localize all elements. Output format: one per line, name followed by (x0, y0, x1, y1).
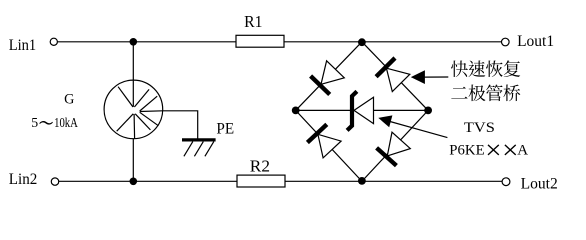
diode D1 (bridge upper-left) (311, 61, 345, 95)
resistor R1 (236, 35, 284, 47)
wire top rail: Lin1 to R1 (57, 41, 236, 43)
callout arrow to TVS (378, 115, 447, 137)
value label P6KE××A (449, 143, 528, 159)
wire gas tube bottom lead (132, 139, 134, 182)
wire bottom rail: Lin2 to R2 (59, 180, 237, 182)
wire bridge diamond sides (296, 42, 428, 182)
diode D3 (bridge lower-left) (307, 124, 341, 157)
svg-text:Lin1: Lin1 (9, 37, 37, 54)
svg-text:Lout2: Lout2 (521, 175, 558, 192)
svg-text:R1: R1 (244, 12, 262, 31)
svg-text:G: G (64, 91, 74, 107)
junction node bridge right (424, 107, 432, 115)
diode D2 (bridge upper-right) (376, 58, 410, 92)
wire G to PE ground (163, 111, 198, 139)
terminal Lin2 (51, 178, 58, 185)
svg-text:Lout1: Lout1 (517, 33, 554, 50)
terminal Lout2 (502, 178, 510, 186)
svg-text:Lin2: Lin2 (9, 171, 38, 188)
svg-text:PE: PE (216, 121, 234, 138)
junction node bridge top (358, 38, 366, 46)
junction node bridge bottom (358, 177, 366, 185)
svg-text:10kA: 10kA (54, 115, 78, 130)
junction node bridge left (292, 107, 300, 115)
junction node gas tube bottom (130, 178, 138, 186)
diode D4 (bridge lower-right) (377, 132, 411, 165)
svg-text:P6KE: P6KE (449, 143, 484, 159)
junction node gas tube top (130, 38, 138, 46)
value label 5~10kA (31, 115, 78, 130)
svg-text:R2: R2 (250, 156, 270, 175)
wire gas tube top lead (132, 42, 134, 80)
svg-text:5: 5 (31, 115, 38, 130)
svg-text:A: A (517, 143, 528, 159)
label 快速恢复 (fast recovery) (451, 60, 520, 77)
wire bottom rail: R2 to Lout2 (285, 180, 502, 182)
wire top rail: R1 to Lout1 (284, 41, 502, 43)
label 二极管桥 (diode bridge) (451, 85, 520, 102)
svg-text:TVS: TVS (464, 120, 495, 136)
gas discharge tube G (3-electrode arrester) (104, 80, 163, 139)
terminal Lout1 (502, 38, 510, 46)
ground PE (182, 140, 216, 156)
TVS diode (P6KE series) (347, 91, 373, 130)
terminal Lin1 (50, 38, 57, 45)
wire TVS center link (296, 109, 428, 111)
resistor R2 (237, 175, 285, 187)
callout arrow to diode bridge (411, 70, 449, 84)
